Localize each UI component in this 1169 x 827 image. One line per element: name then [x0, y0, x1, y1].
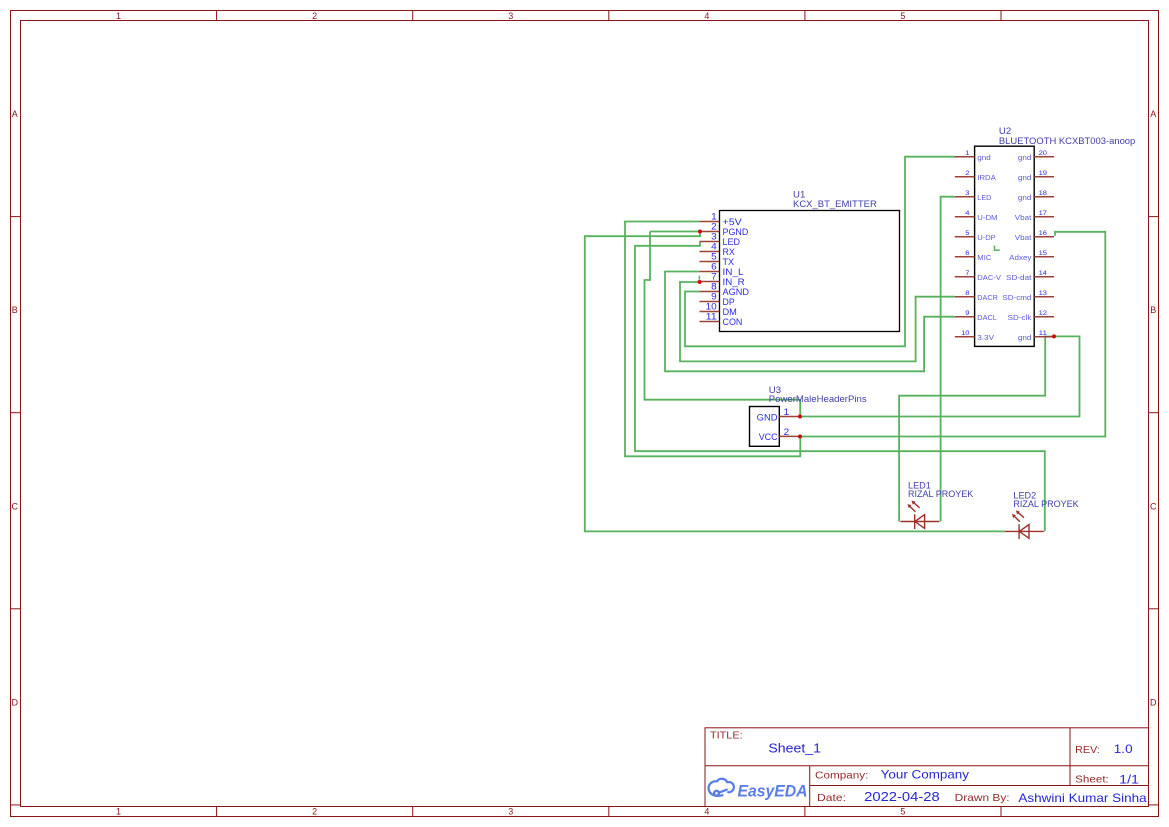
svg-text:1.0: 1.0 [1114, 744, 1133, 756]
wire net GND: U2 pin11 to LED1 cathode [899, 337, 1054, 522]
svg-text:GND: GND [757, 412, 778, 422]
IC U1 KCX_BT_EMITTER body [720, 211, 900, 332]
wire net LED: U1 pin3 to LED2 anode [635, 242, 1045, 532]
svg-text:+5V: +5V [723, 217, 742, 227]
wire net PGND: U1 pin2 to LED2 cathode [585, 232, 1005, 532]
svg-text:VCC: VCC [759, 432, 778, 442]
U2 pin 10 (3.3V) [955, 330, 994, 342]
U2 pin 8 (DACR) [955, 290, 998, 302]
svg-text:AGND: AGND [723, 287, 750, 297]
svg-text:8: 8 [711, 282, 717, 292]
U1 pin 9 (DP) [700, 292, 735, 307]
junction at U1 pin7 [698, 280, 702, 284]
svg-text:2: 2 [965, 170, 970, 177]
svg-text:LED: LED [723, 237, 740, 247]
svg-text:3.3V: 3.3V [977, 333, 994, 342]
svg-text:16: 16 [1039, 230, 1048, 237]
U2 pin 16 (Vbat) [1015, 230, 1054, 242]
svg-text:Date:: Date: [817, 793, 846, 804]
U1 pin 3 (LED) [700, 232, 740, 247]
svg-text:Adxey: Adxey [1009, 253, 1032, 262]
svg-text:2: 2 [312, 807, 317, 817]
LED2 label [1013, 491, 1078, 510]
svg-text:SD-dat: SD-dat [1006, 273, 1031, 282]
svg-text:1: 1 [116, 807, 121, 817]
svg-text:2022-04-28: 2022-04-28 [864, 790, 940, 804]
svg-text:3: 3 [965, 190, 970, 197]
svg-text:1: 1 [784, 407, 790, 417]
wire net PGND: U1 pin2 to U3 pin1 GND [645, 232, 801, 417]
U2 pin 3 (LED) [955, 190, 992, 202]
svg-text:Your Company: Your Company [881, 768, 969, 782]
svg-text:U2: U2 [999, 126, 1011, 136]
U1 pin 8 (AGND) [700, 282, 750, 297]
title block [705, 728, 1149, 807]
svg-text:15: 15 [1039, 250, 1048, 257]
svg-text:gnd: gnd [1018, 333, 1032, 342]
svg-text:3: 3 [508, 11, 513, 21]
svg-text:IN_L: IN_L [723, 267, 744, 277]
wire net +5V: U1 pin1 to U3 pin2 VCC [625, 222, 800, 457]
svg-text:7: 7 [711, 272, 717, 282]
U2 pin 20 (gnd) [1018, 150, 1054, 162]
svg-text:PGND: PGND [723, 227, 749, 237]
U2 pin 11 (gnd) [1018, 330, 1054, 342]
svg-text:Sheet_1: Sheet_1 [768, 741, 821, 755]
svg-text:DM: DM [723, 307, 737, 317]
LED2 emission arrowheads [1012, 510, 1020, 518]
svg-text:RX: RX [723, 247, 735, 257]
svg-text:6: 6 [711, 262, 717, 272]
U2 pin 18 (gnd) [1018, 190, 1054, 202]
U1 pin 4 (RX) [700, 242, 735, 257]
svg-text:B: B [12, 305, 18, 315]
svg-text:TITLE:: TITLE: [710, 731, 743, 742]
svg-text:17: 17 [1039, 210, 1048, 217]
svg-text:3: 3 [508, 807, 513, 817]
U1 pin 1 (+5V) [700, 212, 742, 227]
U2 pin 19 (gnd) [1018, 170, 1054, 182]
svg-text:D: D [12, 698, 19, 708]
svg-text:REV:: REV: [1075, 745, 1100, 756]
U1 reference designator label [793, 189, 877, 209]
svg-text:C: C [12, 501, 19, 511]
svg-text:B: B [1150, 305, 1156, 315]
wire net IN_L: U1 pin6 to U2 pin9 DACL [665, 272, 955, 372]
U2 pin 17 (Vbat) [1015, 210, 1054, 222]
svg-text:BLUETOOTH KCXBT003-anoop: BLUETOOTH KCXBT003-anoop [999, 136, 1135, 146]
junction at U3 pin2 [798, 435, 802, 439]
U2 pin 7 (DAC-V) [955, 270, 1001, 282]
svg-text:1: 1 [116, 11, 121, 21]
svg-text:5: 5 [965, 230, 970, 237]
svg-text:7: 7 [965, 270, 970, 277]
wire net VCC: U3 pin2 to U2 pin16 Vbat [799, 232, 1105, 437]
svg-text:1: 1 [711, 212, 717, 222]
svg-text:U-DP: U-DP [977, 233, 996, 242]
svg-text:Vbat: Vbat [1015, 233, 1032, 242]
svg-text:10: 10 [706, 302, 717, 312]
wire net IN_R: U1 pin7 to U2 pin8 DACR [680, 282, 955, 361]
svg-text:DACR: DACR [977, 293, 998, 302]
svg-text:2: 2 [784, 427, 790, 437]
svg-text:C: C [1150, 501, 1157, 511]
U3 pin 1 (GND) [757, 407, 800, 422]
wire net GND: U3 pin1 to U2 pin11 [799, 336, 1079, 416]
svg-text:18: 18 [1039, 190, 1048, 197]
U2 reference designator label [999, 126, 1135, 146]
LED2 diode symbol [1005, 512, 1044, 539]
svg-text:6: 6 [965, 250, 970, 257]
svg-text:1/1: 1/1 [1119, 775, 1139, 787]
svg-text:EasyEDA: EasyEDA [738, 782, 808, 800]
svg-text:13: 13 [1039, 290, 1048, 297]
wire net LED1: U2 pin3 to LED1 anode [941, 197, 955, 522]
U1 pin 7 (IN_R) [700, 272, 745, 287]
U2 pin 14 (SD-dat) [1006, 270, 1054, 282]
svg-text:9: 9 [965, 310, 970, 317]
svg-text:14: 14 [1039, 270, 1048, 277]
wire stub above U1 pin7 junction [698, 276, 700, 280]
U2 pin 1 (gnd) [955, 150, 991, 162]
svg-text:5: 5 [900, 807, 905, 817]
svg-text:RIZAL PROYEK: RIZAL PROYEK [1013, 499, 1078, 509]
svg-text:10: 10 [961, 330, 970, 337]
svg-text:2: 2 [711, 222, 717, 232]
svg-text:19: 19 [1039, 170, 1048, 177]
svg-text:Ashwini Kumar Sinha: Ashwini Kumar Sinha [1018, 791, 1147, 805]
svg-text:A: A [1150, 109, 1156, 119]
U1 pin 10 (DM) [700, 302, 737, 317]
svg-text:Drawn By:: Drawn By: [955, 793, 1010, 804]
svg-text:D: D [1150, 698, 1157, 708]
svg-text:SD-cmd: SD-cmd [1002, 293, 1031, 302]
U1 pin 2 (PGND) [700, 222, 749, 237]
svg-text:Company:: Company: [815, 770, 868, 781]
svg-text:KCX_BT_EMITTER: KCX_BT_EMITTER [793, 199, 877, 209]
svg-text:gnd: gnd [1018, 193, 1032, 202]
svg-text:3: 3 [711, 232, 717, 242]
junction at U2 pin11 [1052, 334, 1056, 338]
svg-text:4: 4 [965, 210, 970, 217]
svg-text:DP: DP [723, 297, 735, 307]
svg-text:DAC-V: DAC-V [977, 273, 1001, 282]
svg-text:2: 2 [312, 11, 317, 21]
junction at U3 pin1 [798, 415, 802, 419]
svg-text:4: 4 [711, 242, 717, 252]
svg-text:Vbat: Vbat [1015, 213, 1032, 222]
svg-text:5: 5 [900, 11, 905, 21]
svg-text:A: A [12, 109, 18, 119]
U1 pin 6 (IN_L) [700, 262, 744, 277]
junction at U1 pin2 [698, 230, 702, 234]
U3 reference designator label [769, 385, 867, 404]
U2 antenna mark [995, 246, 1000, 251]
U1 pin 11 (CON) [700, 312, 743, 327]
svg-text:8: 8 [965, 290, 970, 297]
svg-text:gnd: gnd [1018, 173, 1032, 182]
LED1 diode symbol [900, 502, 939, 529]
svg-text:TX: TX [723, 257, 735, 267]
U3 pin 2 (VCC) [759, 427, 800, 442]
svg-text:12: 12 [1039, 310, 1048, 317]
U2 pin 4 (U-DM) [955, 210, 998, 222]
svg-text:LED: LED [977, 193, 991, 202]
svg-text:5: 5 [711, 252, 717, 262]
svg-text:CON: CON [723, 317, 743, 327]
svg-text:1: 1 [965, 150, 970, 157]
LED1 emission arrowheads [908, 501, 916, 509]
LED1 label [908, 480, 973, 499]
U2 pin 6 (MIC) [955, 250, 992, 262]
U2 pin 5 (U-DP) [955, 230, 996, 242]
svg-text:MIC: MIC [977, 253, 991, 262]
svg-text:gnd: gnd [977, 153, 991, 162]
svg-text:RIZAL PROYEK: RIZAL PROYEK [908, 489, 973, 499]
svg-text:20: 20 [1039, 150, 1048, 157]
svg-text:U-DM: U-DM [977, 213, 997, 222]
U2 pin 9 (DACL) [955, 310, 997, 322]
svg-text:gnd: gnd [1018, 153, 1032, 162]
svg-text:11: 11 [1039, 330, 1048, 337]
svg-text:11: 11 [706, 312, 717, 322]
svg-text:IRDA: IRDA [977, 173, 996, 182]
wire net PGND: stub at U1 pin2 [650, 231, 700, 233]
svg-text:SD-clk: SD-clk [1008, 313, 1032, 322]
svg-text:4: 4 [704, 807, 709, 817]
IC U2 BLUETOOTH KCXBT003-anoop body [975, 146, 1035, 346]
U2 pin 12 (SD-clk) [1008, 310, 1054, 322]
svg-text:PowerMaleHeaderPins: PowerMaleHeaderPins [769, 394, 867, 404]
header U3 PowerMaleHeaderPins body [750, 407, 780, 447]
EasyEDA logo cloud [709, 779, 734, 796]
svg-text:U1: U1 [793, 189, 805, 199]
U2 pin 13 (SD-cmd) [1002, 290, 1054, 302]
U2 pin 15 (Adxey) [1009, 250, 1054, 262]
wire net AGND: U1 pin8 to U2 pin1 [685, 157, 955, 347]
U1 pin 5 (TX) [700, 252, 735, 267]
U2 pin 2 (IRDA) [955, 170, 996, 182]
svg-text:Sheet:: Sheet: [1075, 775, 1109, 786]
svg-text:4: 4 [704, 11, 709, 21]
svg-text:DACL: DACL [977, 313, 997, 322]
svg-text:9: 9 [711, 292, 717, 302]
svg-text:IN_R: IN_R [723, 277, 745, 287]
